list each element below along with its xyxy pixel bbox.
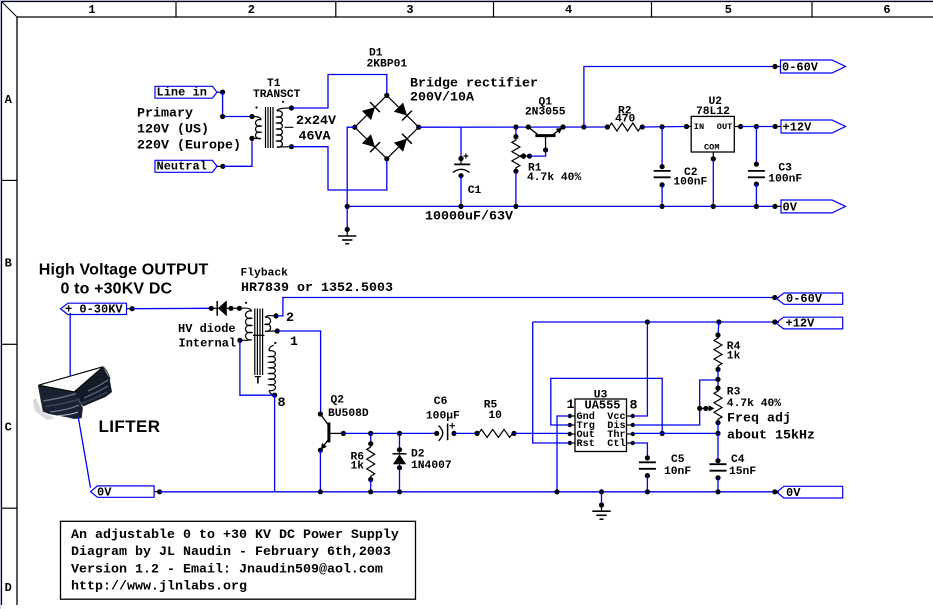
transistor Q1 2N3055: [525, 97, 566, 153]
wire bridge plus rail to R2: [419, 126, 608, 128]
svg-text:Primary: Primary: [137, 107, 193, 122]
wire U2 OUT to +12V flag: [741, 124, 776, 129]
transformer T2 flyback: [237, 268, 393, 412]
svg-text:TRANSCT: TRANSCT: [253, 89, 301, 101]
wire flyback pin1 to Q2 collector: [277, 331, 320, 414]
diode D2 1N4007: [393, 431, 452, 495]
node Line in (input flag): [155, 86, 225, 100]
potentiometer R3 4.7k freq adj: [697, 386, 815, 444]
label LIFTER: [99, 417, 161, 436]
svg-text:2KBP01: 2KBP01: [367, 59, 408, 71]
svg-text:1k: 1k: [727, 351, 741, 363]
resistor R2 470: [605, 106, 645, 132]
svg-text:High Voltage OUTPUT: High Voltage OUTPUT: [39, 261, 209, 278]
capacitor C4 15nF: [710, 454, 757, 494]
svg-text:1k: 1k: [351, 461, 365, 473]
ground section C: [592, 489, 610, 519]
svg-text:IN: IN: [694, 122, 704, 132]
node + 0-30KV (HV output flag): [61, 303, 135, 317]
svg-text:100μF: 100μF: [426, 411, 460, 423]
svg-text:Q2: Q2: [331, 395, 345, 407]
svg-text:15nF: 15nF: [729, 466, 756, 478]
node Neutral (input flag): [155, 160, 225, 174]
svg-text:100nF: 100nF: [768, 174, 802, 186]
svg-text:R3: R3: [727, 387, 741, 399]
wire 0V rail section C: [160, 491, 775, 493]
resistor R6 1k: [351, 431, 375, 495]
svg-text:1: 1: [567, 398, 575, 413]
svg-text:HR7839 or 1352.5003: HR7839 or 1352.5003: [241, 281, 393, 296]
wire U2 COM to 0V rail: [711, 159, 716, 209]
svg-text:T: T: [255, 376, 262, 388]
svg-text:Diagram by JL Naudin - Februar: Diagram by JL Naudin - February 6th,2003: [71, 545, 391, 560]
wire 0-30KV flag to HV diode: [132, 306, 214, 311]
wire pin 8 to 0V rail: [274, 395, 276, 492]
svg-text:Bridge rectifier: Bridge rectifier: [410, 76, 538, 91]
wire flyback HV return to pin 8: [240, 340, 275, 395]
svg-text:+12V: +12V: [783, 121, 813, 135]
svg-text:0 to +30KV DC: 0 to +30KV DC: [61, 281, 173, 298]
svg-text:0-60V: 0-60V: [782, 61, 819, 75]
svg-text:3: 3: [406, 3, 413, 17]
svg-text:Neutral: Neutral: [157, 160, 207, 174]
svg-text:0-60V: 0-60V: [786, 292, 823, 306]
svg-text:4.7k 40%: 4.7k 40%: [727, 398, 781, 410]
svg-text:0V: 0V: [783, 201, 798, 215]
wire Line in to T1 primary top: [220, 92, 252, 119]
wire U3 Thr row: [633, 432, 718, 434]
HV diode (internal): [178, 300, 242, 350]
svg-text:8: 8: [630, 399, 638, 414]
ground section A: [338, 206, 356, 243]
capacitor C3 100nF: [748, 127, 803, 209]
label High Voltage OUTPUT: [39, 261, 209, 297]
svg-text:6: 6: [883, 3, 890, 17]
svg-text:+ 0-30KV: + 0-30KV: [65, 303, 123, 317]
svg-text:2x24V: 2x24V: [296, 114, 336, 129]
svg-text:B: B: [5, 257, 12, 271]
svg-text:Rst: Rst: [577, 439, 595, 450]
lifter photo: [33, 367, 112, 420]
wire Q2 emitter to 0V rail: [318, 450, 323, 494]
svg-text:10nF: 10nF: [664, 466, 691, 478]
wire U3 Vcc to +12V rail: [633, 322, 648, 416]
svg-text:BU508D: BU508D: [328, 408, 369, 420]
svg-text:C1: C1: [468, 185, 482, 197]
op-amp U2 78L12 regulator: [684, 96, 743, 161]
wire C6 to R5: [454, 432, 477, 434]
svg-text:C6: C6: [434, 396, 448, 408]
node +12V (section B input flag): [772, 317, 843, 331]
wire Q2 base row (to C6): [343, 432, 436, 434]
svg-text:Version 1.2 - Email: Jnaudin50: Version 1.2 - Email: Jnaudin509@aol.com: [71, 562, 383, 577]
wire bridge minus to 0V rail: [347, 127, 355, 206]
svg-text:1N4007: 1N4007: [411, 460, 452, 472]
svg-text:C5: C5: [671, 454, 685, 466]
node +12V (section A output flag): [773, 120, 846, 135]
wire flyback pin2 to 0-60V rail: [276, 298, 775, 316]
svg-text:2: 2: [248, 3, 255, 17]
svg-text:2N3055: 2N3055: [525, 106, 566, 118]
potentiometer R1 4.7k: [512, 124, 582, 209]
wire U3 Dis to R4/R3 junction: [633, 380, 718, 425]
svg-text:0V: 0V: [97, 486, 112, 500]
wire R3 bottom to C4: [717, 433, 719, 460]
svg-text:10000uF/63V: 10000uF/63V: [425, 210, 513, 225]
wire U3 Rst to +12V rail: [533, 322, 570, 443]
capacitor C2 100nF: [654, 127, 708, 209]
svg-text:8: 8: [278, 396, 286, 411]
transformer T1: [249, 78, 336, 149]
svg-text:4.7k 40%: 4.7k 40%: [527, 172, 581, 184]
svg-text:An adjustable 0 to +30 KV DC P: An adjustable 0 to +30 KV DC Power Suppl…: [71, 528, 399, 543]
svg-text:http://www.jlnlabs.org: http://www.jlnlabs.org: [71, 580, 247, 595]
wire HV wire flag to lifter: [69, 313, 71, 376]
wire R5 to U3 Out: [514, 432, 570, 434]
wire R2 to U2 IN: [581, 124, 686, 129]
svg-text:C: C: [5, 420, 12, 434]
svg-text:2: 2: [286, 311, 294, 326]
node 0V (section C right flag): [772, 486, 843, 500]
wire U3 Trg loop to Thr: [551, 378, 665, 436]
svg-text:+12V: +12V: [786, 317, 816, 331]
svg-text:OUT: OUT: [717, 122, 732, 132]
wire 0V rail section A: [345, 204, 775, 209]
transistor Q2 BU508D: [318, 395, 369, 453]
label primary voltages: [137, 107, 241, 154]
svg-text:LIFTER: LIFTER: [99, 417, 161, 436]
resistor R4 1k: [714, 322, 741, 388]
wire +12V rail section B: [533, 319, 775, 324]
svg-text:HV diode: HV diode: [178, 322, 236, 336]
svg-text:about 15kHz: about 15kHz: [727, 428, 815, 443]
wire T1 secondary top to bridge AC top: [292, 75, 387, 109]
wire Neutral to T1 primary bottom: [223, 138, 252, 166]
svg-text:COM: COM: [704, 143, 719, 153]
capacitor C1 10000uF/63V: [425, 127, 513, 225]
svg-text:100nF: 100nF: [673, 177, 707, 189]
bridge rectifier D1: [352, 48, 538, 162]
svg-text:4: 4: [565, 3, 572, 17]
wire riser to 0-60V top rail: [584, 67, 775, 128]
node 0-60V (section A output flag): [772, 60, 845, 75]
svg-text:Line in: Line in: [157, 86, 207, 100]
svg-text:220V (Europe): 220V (Europe): [137, 139, 241, 154]
svg-text:10: 10: [488, 410, 502, 422]
node 0V (section A output flag): [772, 200, 845, 215]
wire T1 secondary bottom to bridge AC bottom: [292, 147, 387, 190]
svg-text:0V: 0V: [786, 486, 801, 500]
node 0V (section C left flag): [91, 486, 163, 500]
resistor R5 10: [475, 399, 517, 437]
svg-text:D: D: [5, 581, 12, 595]
svg-text:A: A: [5, 93, 13, 107]
capacitor C5 10nF: [639, 454, 691, 494]
svg-text:200V/10A: 200V/10A: [410, 90, 474, 105]
svg-text:46VA: 46VA: [299, 130, 331, 145]
svg-text:Freq adj: Freq adj: [727, 412, 791, 427]
op-amp U3 UA555 timer: [567, 390, 638, 452]
svg-text:120V (US): 120V (US): [137, 123, 209, 138]
svg-text:C4: C4: [731, 454, 745, 466]
svg-text:1: 1: [88, 3, 95, 17]
wire U3 Ctl to C5: [633, 443, 648, 458]
capacitor C6 100uF: [426, 396, 460, 441]
wire lifter to 0V flag: [78, 417, 90, 488]
svg-text:1: 1: [290, 335, 298, 350]
svg-text:Internal: Internal: [179, 337, 237, 351]
svg-text:UA555: UA555: [585, 399, 621, 413]
wire Q1 base to R1 wiper: [530, 150, 546, 156]
svg-text:5: 5: [725, 3, 732, 17]
title box: [61, 521, 416, 599]
node 0-60V (section B input flag): [772, 292, 843, 306]
svg-text:D2: D2: [411, 449, 425, 461]
svg-text:Ctl: Ctl: [607, 438, 625, 450]
svg-text:Flyback: Flyback: [241, 268, 289, 280]
wire U3 Gnd to 0V rail: [554, 416, 569, 494]
